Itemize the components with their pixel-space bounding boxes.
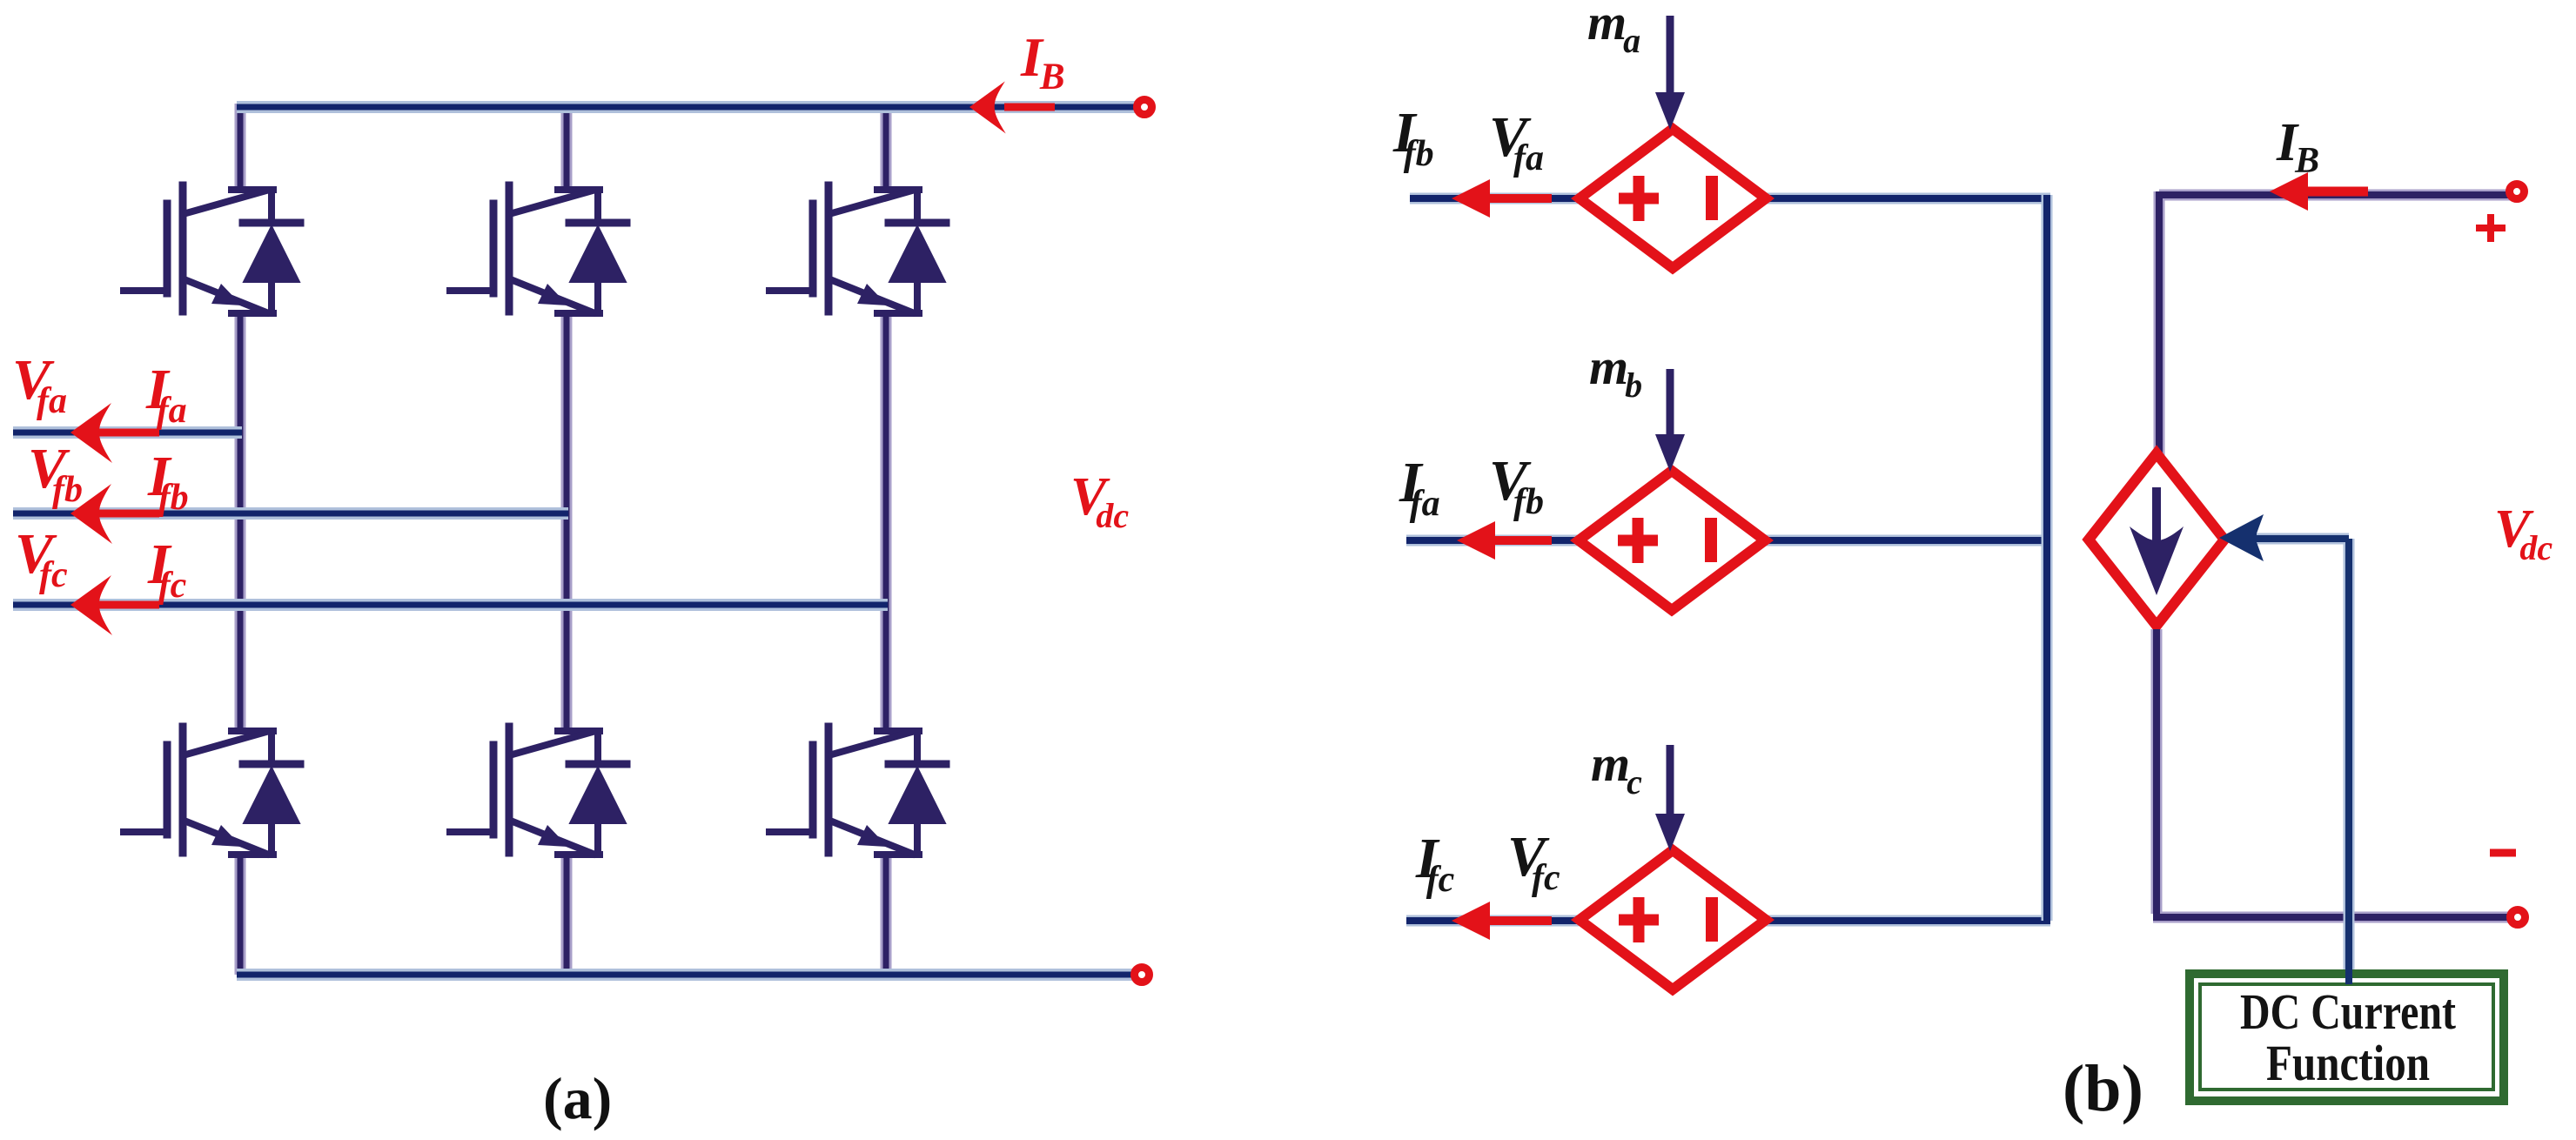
arrow m_b control input: [1655, 369, 1685, 472]
wire: phase line b: [13, 507, 568, 520]
controlled source Va (diamond): [1580, 129, 1766, 268]
box: DC Current Function: [2190, 974, 2504, 1101]
wire: phase line c: [13, 599, 888, 611]
wire: leg 1 vertical: [235, 104, 246, 975]
label + polarity: [2476, 214, 2506, 242]
arrow I_fa on phase a: [70, 403, 159, 463]
arrow I_B current arrow on top rail: [969, 81, 1055, 133]
wire: DC loop bottom (b): [2153, 629, 2512, 917]
svg-text:DC Current: DC Current: [2240, 983, 2457, 1040]
terminal: + node circle (b): [2510, 184, 2525, 199]
transistor Q3 (top leg 2 IGBT with diode): [450, 185, 627, 313]
svg-text:Function: Function: [2266, 1035, 2430, 1091]
wire: leg 3 vertical: [881, 104, 892, 975]
arrow V_dc sense into current source: [2219, 514, 2349, 981]
controlled source Vb (diamond): [1579, 471, 1765, 610]
arrow I_fb on phase b: [70, 484, 159, 544]
svg-text:(b): (b): [2063, 1052, 2143, 1125]
arrow I_B on DC loop (b): [2270, 172, 2368, 211]
arrow I_fc on phase c: [70, 575, 159, 635]
transistor Q4 (bottom leg 1 IGBT with diode): [124, 727, 300, 855]
wire: diamond b to bus: [1764, 535, 2050, 547]
dependent current source diamond (b): [2089, 453, 2224, 626]
wire: diamond a to bus: [1767, 193, 2050, 205]
transistor Q2 (bottom leg 3 IGBT with diode): [769, 727, 946, 855]
terminal: DC- node circle (a): [1135, 968, 1150, 982]
wire: phase a stub (b): [1410, 193, 1578, 205]
wire: phase line a: [13, 426, 242, 439]
terminal: - node circle (b): [2511, 910, 2526, 925]
wire: V_dc sense wire entering box: [2345, 922, 2352, 984]
wire: phase b stub (b): [1406, 535, 1580, 547]
arrow I_fb current on phase a stub (b): [1452, 179, 1552, 218]
wire: right vertical bus (b): [2042, 195, 2053, 921]
transistor Q1 (top leg 1 IGBT with diode): [124, 185, 300, 313]
wire: DC loop top (b): [2159, 191, 2512, 466]
wire: DC positive top rail: [237, 101, 1138, 113]
label - polarity: [2490, 849, 2516, 857]
transistor Q5 (top leg 3 IGBT with diode): [769, 185, 946, 313]
transistor Q6 (bottom leg 2 IGBT with diode): [450, 727, 627, 855]
arrow m_a control input: [1655, 16, 1685, 130]
controlled source Vc (diamond): [1580, 850, 1766, 989]
arrow m_c control input: [1655, 745, 1685, 851]
arrow I_fa current on phase b stub (b): [1457, 521, 1552, 560]
arrow I_fc current on phase c stub (b): [1452, 902, 1552, 940]
terminal: DC+ node circle (a): [1137, 100, 1152, 115]
wire: phase c stub (b): [1406, 915, 1579, 927]
wire: diamond c to bus: [1766, 915, 2050, 927]
svg-text:(a): (a): [543, 1065, 612, 1131]
wire: leg 2 vertical: [561, 104, 573, 975]
wire: DC negative bottom rail: [237, 969, 1136, 981]
